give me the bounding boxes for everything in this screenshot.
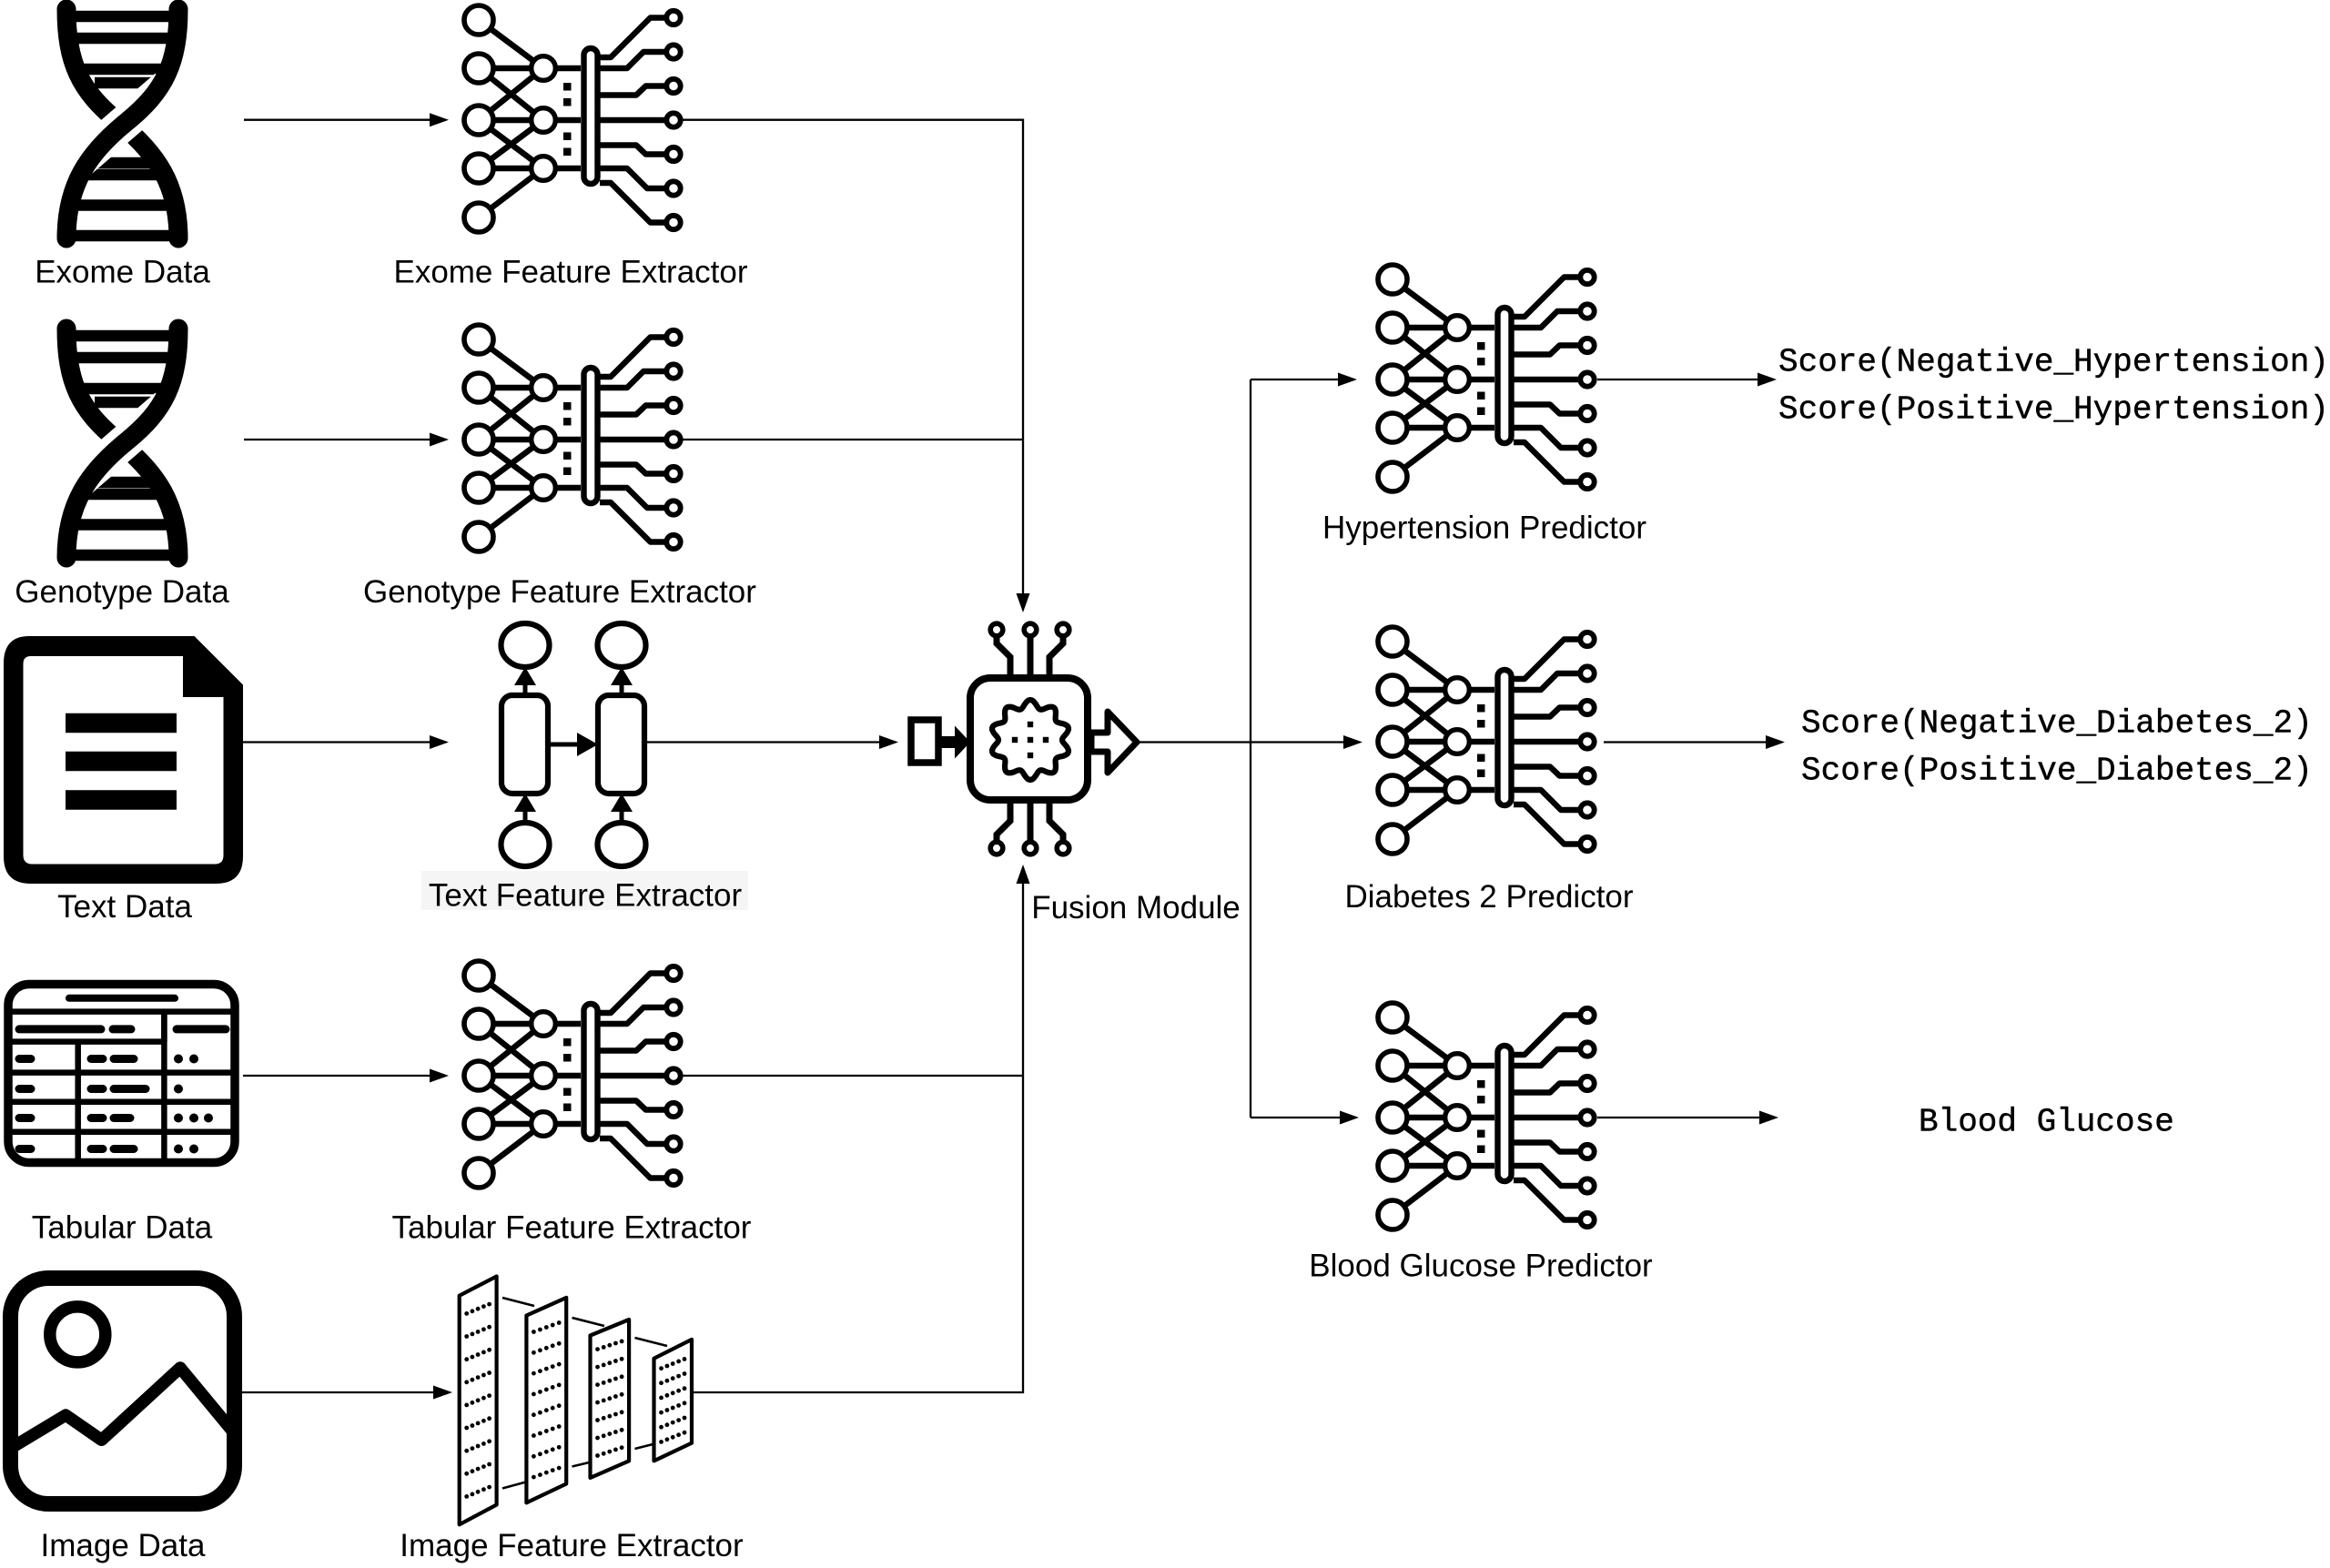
icon: Image Feature Extractor (CNN layers) (460, 1277, 692, 1525)
icon: Blood Glucose Predictor (neural net) (1378, 1003, 1595, 1229)
arrow: Text Feature Extractor output to Fusion Module input (647, 741, 881, 743)
icon: Genotype Feature Extractor (neural net) (464, 325, 681, 551)
icon: Genotype Data (DNA) (66, 329, 178, 558)
svg-text:Tabular Feature Extractor: Tabular Feature Extractor (392, 1210, 752, 1246)
wire: Fusion Module output to Diabetes 2 Predictor (1136, 741, 1345, 743)
icon: Fusion Module (chip with gear) (911, 623, 1137, 855)
arrow: Image Data to Image Feature Extractor (242, 1391, 435, 1393)
svg-text:Diabetes 2 Predictor: Diabetes 2 Predictor (1344, 879, 1633, 915)
svg-text:Score(Negative_Diabetes_2): Score(Negative_Diabetes_2) (1801, 705, 2313, 743)
wire: Image Feature Extractor output to bottom bus (694, 884, 1023, 1392)
wire: predictor branch bus (vertical) (1250, 379, 1251, 1118)
svg-text:Fusion Module: Fusion Module (1031, 890, 1241, 926)
svg-text:Text Feature Extractor: Text Feature Extractor (429, 878, 743, 914)
icon: Text Feature Extractor (RNN) (501, 623, 646, 866)
arrow: Tabular Data to Tabular Feature Extractor (243, 1075, 431, 1077)
arrow: branch to Blood Glucose Predictor (1251, 1117, 1342, 1118)
arrow: Blood Glucose Predictor output (1597, 1117, 1761, 1118)
arrowhead: into Fusion Module top (1017, 593, 1030, 612)
arrow: Hypertension Predictor output (1597, 379, 1759, 380)
svg-text:Image Feature Extractor: Image Feature Extractor (400, 1528, 744, 1563)
arrow: Diabetes 2 Predictor output (1604, 741, 1768, 743)
svg-text:Tabular Data: Tabular Data (32, 1210, 213, 1246)
svg-text:Image Data: Image Data (41, 1528, 206, 1563)
icon: Exome Feature Extractor (neural net) (464, 5, 681, 232)
arrow: branch to Hypertension Predictor (1251, 379, 1340, 380)
arrowhead: into Fusion Module bottom (1017, 865, 1030, 884)
icon: Tabular Data (table) (8, 985, 235, 1164)
wire: Genotype Feature Extractor output joins top bus (683, 439, 1023, 440)
svg-text:Exome Feature Extractor: Exome Feature Extractor (393, 255, 747, 290)
arrow: Text Data to Text Feature Extractor (243, 741, 431, 743)
svg-text:Score(Positive_Diabetes_2): Score(Positive_Diabetes_2) (1801, 753, 2313, 790)
svg-text:Text Data: Text Data (57, 889, 192, 925)
icon: Tabular Feature Extractor (neural net) (464, 961, 681, 1188)
arrow: Genotype Data to Genotype Feature Extractor (244, 439, 431, 440)
icon: Exome Data (DNA) (66, 9, 178, 238)
icon: Image Data (picture) (11, 1279, 235, 1504)
arrow: Exome Data to Exome Feature Extractor (244, 119, 431, 121)
svg-text:Score(Negative_Hypertension): Score(Negative_Hypertension) (1778, 344, 2329, 381)
svg-text:Score(Positive_Hypertension): Score(Positive_Hypertension) (1778, 391, 2329, 429)
svg-text:Genotype Data: Genotype Data (15, 574, 229, 610)
wire: Exome Feature Extractor output to top bus (683, 120, 1023, 593)
icon: Text Data (document) (4, 636, 243, 884)
highlight: Text Feature Extractor label background (421, 871, 748, 910)
icon: Hypertension Predictor (neural net) (1378, 265, 1595, 491)
svg-text:Exome Data: Exome Data (35, 255, 210, 290)
svg-text:Genotype Feature Extractor: Genotype Feature Extractor (363, 574, 756, 610)
svg-text:Blood Glucose: Blood Glucose (1919, 1104, 2174, 1141)
svg-text:Blood Glucose Predictor: Blood Glucose Predictor (1309, 1249, 1653, 1284)
icon: Diabetes 2 Predictor (neural net) (1378, 627, 1595, 854)
wire: Tabular Feature Extractor output joins bottom bus (683, 1075, 1023, 1077)
svg-text:Hypertension Predictor: Hypertension Predictor (1322, 511, 1646, 546)
